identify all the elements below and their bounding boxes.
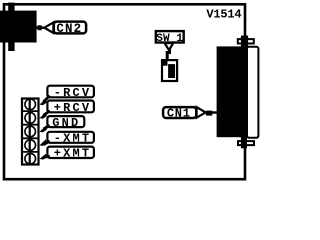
connector CN1 body: [217, 46, 247, 137]
label -RCV: [47, 86, 94, 98]
svg-text:+RCV: +RCV: [54, 101, 92, 115]
svg-text:CN1: CN1: [167, 106, 191, 120]
connector CN1 flange: [247, 47, 258, 138]
label GND: [47, 116, 84, 127]
connector CN1 bottom screw nut: [238, 141, 254, 145]
arrowhead pointing left at CN2: [44, 22, 53, 33]
arrow to terminal 1: [44, 96, 50, 102]
terminal screw 4: [25, 140, 36, 151]
arrowhead pointing right at CN1: [197, 107, 206, 118]
svg-text:CN2: CN2: [56, 22, 82, 36]
label +XMT: [47, 147, 94, 158]
board outline: [4, 4, 245, 179]
switch SW1 wire notch: [163, 61, 168, 66]
terminal block divider 2: [21, 124, 40, 126]
svg-text:V1514: V1514: [206, 8, 241, 22]
terminal block divider 4: [21, 151, 40, 153]
terminal block divider 1: [21, 110, 40, 112]
label SW1: [156, 31, 184, 42]
switch SW1 body: [162, 60, 177, 81]
arrow to terminal 2: [44, 111, 50, 116]
svg-text:+XMT: +XMT: [54, 147, 92, 161]
connector CN2 body: [0, 11, 37, 43]
terminal screw 3: [25, 126, 36, 137]
terminal screw 2: [25, 113, 36, 124]
svg-text:-XMT: -XMT: [54, 132, 92, 146]
terminal screw 1: [25, 99, 36, 110]
connector CN1 bottom screw post: [241, 137, 247, 148]
arrow to terminal 3: [44, 126, 50, 130]
label +RCV: [47, 101, 94, 113]
connector CN1 top screw nut: [238, 39, 254, 43]
terminal block TB1: [22, 99, 39, 165]
terminal screw 5: [25, 153, 36, 164]
label CN1: [163, 107, 196, 118]
label -XMT: [47, 132, 94, 143]
connector CN1 top screw post: [241, 36, 248, 48]
arrow to terminal 5: [44, 156, 50, 157]
terminal block divider 3: [21, 137, 40, 139]
wire from CN2 body to CN2 label arrow: [37, 27, 47, 29]
svg-text:-RCV: -RCV: [54, 86, 92, 100]
switch SW1 slider: [168, 64, 175, 78]
wire from CN1 arrow to CN1 body: [204, 111, 217, 113]
arrow to terminal 4: [44, 141, 50, 145]
label CN2: [54, 22, 86, 34]
pointer from SW1 label down to switch: [165, 43, 174, 50]
svg-text:GND: GND: [52, 116, 80, 130]
connector CN2 bracket tab: [8, 3, 14, 51]
